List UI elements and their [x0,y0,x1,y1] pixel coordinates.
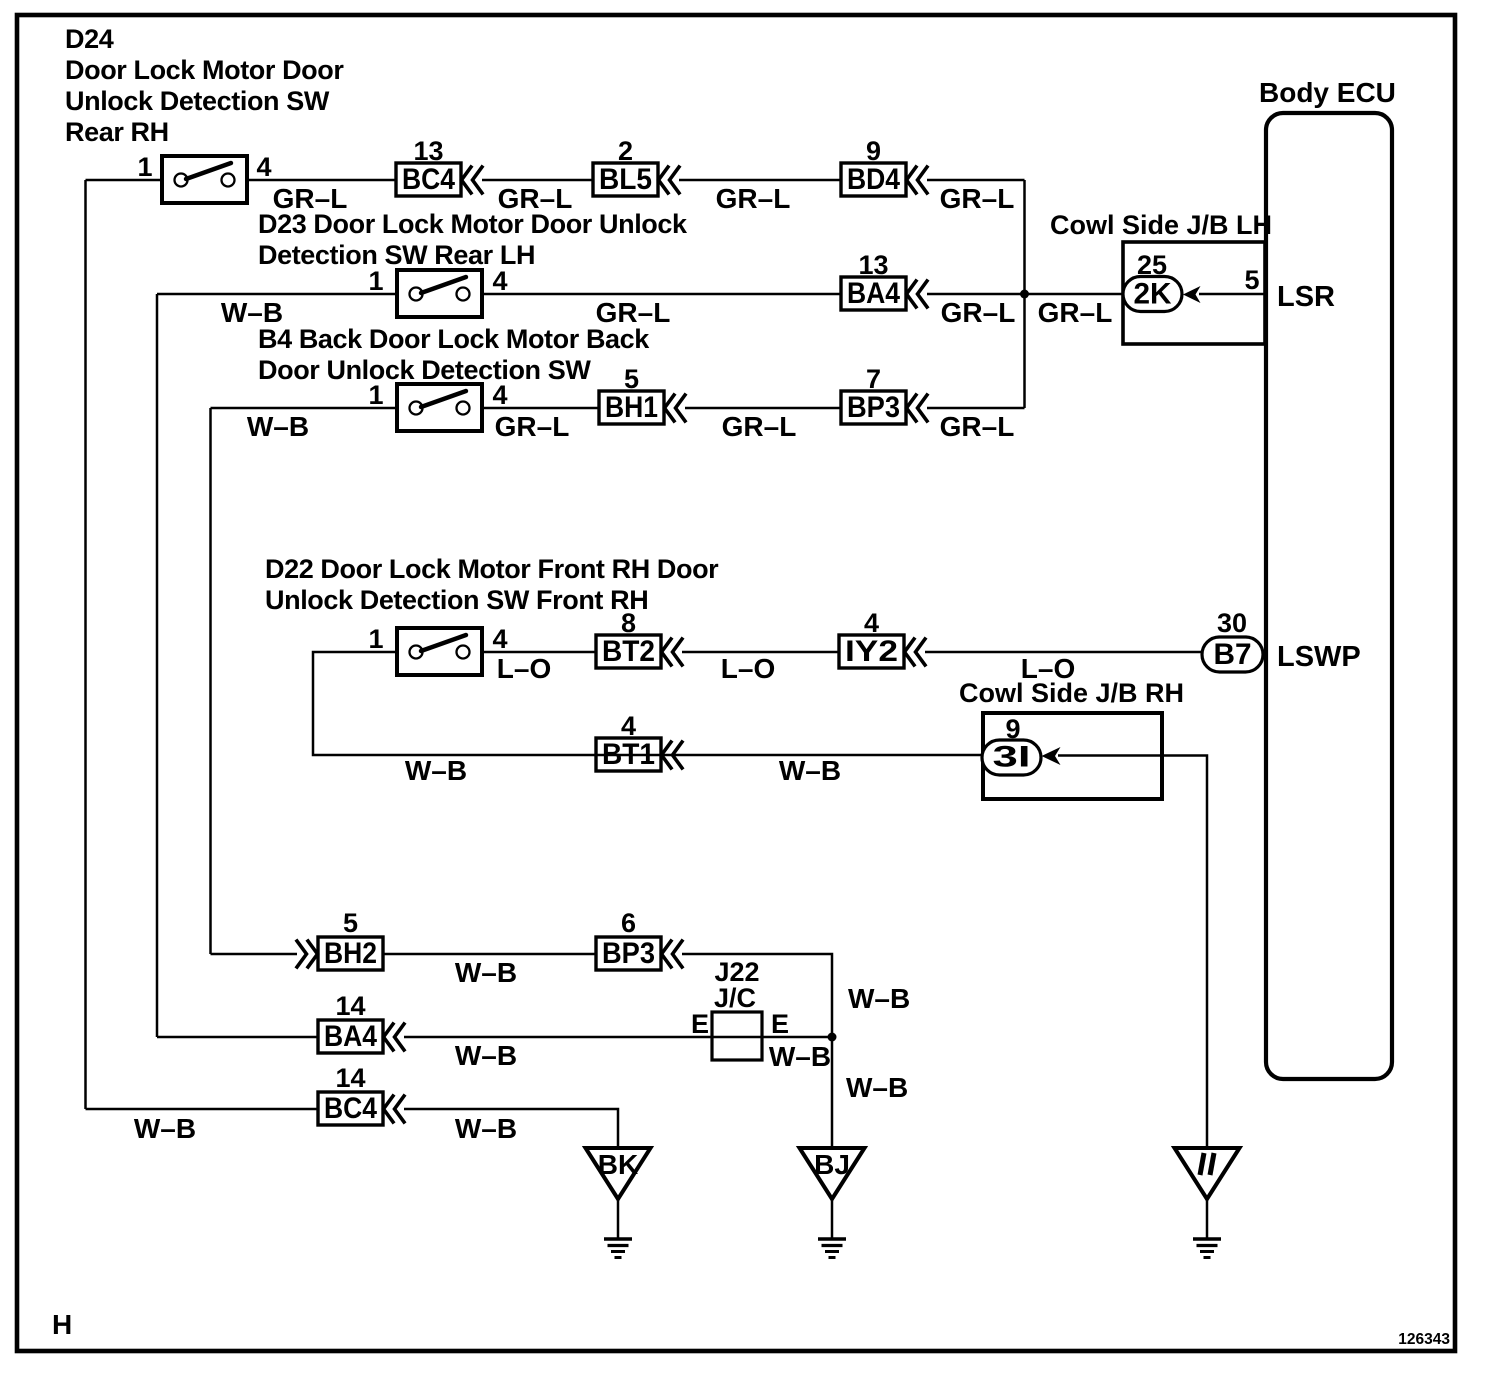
svg-text:W–B: W–B [848,983,910,1014]
svg-text:Door Lock Motor Door: Door Lock Motor Door [65,55,344,85]
wire [482,179,593,182]
switch D23 [368,266,507,317]
svg-text:126343: 126343 [1398,1331,1450,1348]
wire B4 pin4 to BH1 [482,407,599,410]
connector 4 BT1 [596,711,682,771]
wire B4 pin1 left [211,407,398,410]
label J22 J/C [714,957,760,1013]
svg-text:GR–L: GR–L [722,411,797,442]
svg-text:L–O: L–O [497,653,551,684]
wire vertical bus right [1023,180,1026,408]
svg-text:E: E [771,1009,789,1039]
svg-text:W–B: W–B [769,1041,831,1072]
svg-text:Door Unlock Detection SW: Door Unlock Detection SW [258,355,591,385]
connector 13 BA4 [841,250,927,310]
wire row1 to corner [927,179,1025,182]
arrowhead into 2K [1183,286,1201,303]
connector 6 BP3 [596,908,682,970]
wire D24 pin1 left [86,179,163,182]
Cowl Side J/B RH box [959,678,1184,799]
wire BP3 to BJ drop [682,954,832,1148]
wire row3 to corner [927,407,1025,410]
svg-text:LSWP: LSWP [1277,641,1361,673]
ground BJ [800,1148,865,1258]
connector 30 B7 oval [1202,637,1263,672]
svg-text:BD4: BD4 [847,163,900,196]
svg-text:14: 14 [335,1063,365,1093]
svg-text:D22 Door Lock Motor Front RH D: D22 Door Lock Motor Front RH Door [265,554,719,584]
svg-text:4: 4 [492,380,507,410]
wire [679,179,841,182]
svg-text:GR–L: GR–L [495,411,570,442]
svg-text:6: 6 [621,908,636,938]
svg-text:D24: D24 [65,24,114,54]
wire BH2 to BP3 [383,953,596,956]
wire BC4 to BK drop [404,1109,618,1148]
svg-text:L–O: L–O [721,653,775,684]
ground II [1175,1148,1240,1258]
svg-text:W–B: W–B [134,1113,196,1144]
wire BT1 row [596,754,982,757]
svg-text:W–B: W–B [779,755,841,786]
arrowhead into 3I [1042,747,1061,765]
svg-text:5: 5 [1244,265,1259,295]
svg-text:Cowl Side J/B LH: Cowl Side J/B LH [1050,210,1272,240]
svg-text:BH2: BH2 [324,937,377,970]
svg-text:1: 1 [137,152,152,182]
label D23 Door Lock Motor Door Unlock Detection SW Rear LH [258,209,688,270]
svg-text:GR–L: GR–L [1038,297,1113,328]
svg-text:Rear RH: Rear RH [65,117,169,147]
wire D22 pin4 to BT2 [482,651,596,654]
svg-text:BC4: BC4 [324,1092,377,1125]
switch B4 [368,380,507,431]
svg-text:Cowl Side J/B RH: Cowl Side J/B RH [959,678,1184,708]
svg-text:BC4: BC4 [402,163,455,196]
svg-text:4: 4 [492,266,507,296]
svg-text:Body ECU: Body ECU [1259,77,1396,108]
switch D24 [137,152,271,203]
svg-text:BP3: BP3 [847,391,900,424]
wire 2K to Body ECU LSR [1199,293,1266,296]
svg-text:Unlock Detection SW: Unlock Detection SW [65,86,330,116]
svg-text:Unlock Detection SW Front RH: Unlock Detection SW Front RH [265,585,648,615]
connector 25 2K oval [1123,250,1182,312]
svg-text:W–B: W–B [455,1113,517,1144]
connector 2 BL5 [593,136,679,196]
connector 13 BC4 [396,136,482,196]
label D24 Door Lock Motor Door Unlock Detection SW Rear RH [65,24,344,147]
svg-text:GR–L: GR–L [941,297,1016,328]
connector 9 BD4 [841,136,927,196]
svg-text:W–B: W–B [455,1040,517,1071]
svg-text:J/C: J/C [714,983,756,1013]
connector 14 BA4 [318,991,404,1053]
connector 4 IY2 [839,608,925,668]
svg-text:D23 Door Lock Motor Door Unloc: D23 Door Lock Motor Door Unlock [258,209,688,239]
wire IY2 to B7 [925,651,1202,654]
svg-text:30: 30 [1217,608,1247,638]
label D22 Door Lock Motor Front RH Door Unlock Detection SW Front RH [265,554,719,615]
ground BK [586,1148,651,1258]
connector 14 BC4 [318,1063,404,1125]
node junction BA4 row / BJ drop [828,1033,837,1042]
svg-text:W–B: W–B [455,957,517,988]
svg-text:LSR: LSR [1277,281,1335,313]
svg-text:BA4: BA4 [324,1020,377,1053]
wire left vertical from B4 down to BH2 row [209,408,212,954]
svg-text:2K: 2K [1134,278,1172,311]
label B4 Back Door Lock Motor Back Door Unlock Detection SW [258,324,650,385]
pin 5 LSR of Body ECU [1244,265,1335,313]
svg-text:BT1: BT1 [602,738,655,771]
wire left vertical from D23 down to BA4 row [156,294,159,1037]
svg-text:BL5: BL5 [599,163,652,196]
svg-text:14: 14 [335,991,365,1021]
wire [682,651,839,654]
svg-text:IY2: IY2 [845,635,898,668]
svg-text:1: 1 [368,624,383,654]
svg-text:BA4: BA4 [847,277,900,310]
svg-text:H: H [52,1309,72,1340]
connector 8 BT2 [596,608,682,668]
wire D23 pin4 to BA4 [482,293,841,296]
switch D22 [368,624,507,675]
svg-text:GR–L: GR–L [940,183,1015,214]
svg-text:W–B: W–B [247,411,309,442]
connector 7 BP3 [841,364,927,424]
wire 3I to II ground drop [1058,756,1207,1149]
wire D22 pin1 left loop [313,652,596,755]
svg-text:BH1: BH1 [605,391,658,424]
svg-text:BP3: BP3 [602,937,655,970]
junction J22 J/C box [691,1009,789,1060]
wire BA4 to junction [404,1036,832,1039]
wire BA4 row from left vertical [157,1036,318,1039]
svg-text:1: 1 [368,380,383,410]
svg-text:W–B: W–B [846,1072,908,1103]
svg-text:GR–L: GR–L [716,183,791,214]
svg-text:4: 4 [492,624,507,654]
svg-text:B7: B7 [1214,638,1252,671]
connector 9 3I oval [982,714,1041,775]
wire [685,407,841,410]
pin 30 LSWP of Body ECU [1217,608,1361,673]
svg-text:E: E [691,1009,709,1039]
svg-text:BJ: BJ [814,1149,850,1180]
svg-text:GR–L: GR–L [940,411,1015,442]
wire D24 pin4 to BC4 [247,179,396,182]
svg-text:BT2: BT2 [602,635,655,668]
svg-text:4: 4 [256,152,271,182]
wire BH2 row from left vertical [211,953,298,956]
svg-text:1: 1 [368,266,383,296]
wire D23 pin1 left [157,293,397,296]
wire row2 to junction box [927,293,1124,296]
wire left vertical from D24 down to BC4 row [84,180,87,1109]
connector 5 BH1 [599,364,685,424]
Cowl Side J/B LH box [1050,210,1272,344]
svg-text:B4 Back Door Lock Motor Back: B4 Back Door Lock Motor Back [258,324,650,354]
node junction row2 [1020,290,1029,299]
svg-text:5: 5 [343,908,358,938]
svg-text:3I: 3I [993,741,1031,774]
wire BC4 row from left vertical [86,1108,319,1111]
connector 5 BH2 [297,908,383,970]
svg-text:BK: BK [598,1149,638,1180]
svg-text:W–B: W–B [405,755,467,786]
Body ECU U1 [1259,77,1396,1079]
